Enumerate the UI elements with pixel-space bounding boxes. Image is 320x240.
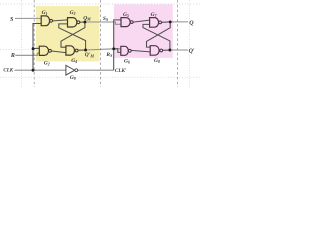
inverter G9 [66,65,75,75]
wire R input with jog into G2 lower input [15,53,39,55]
node CLKstar-RS crossing junction [112,47,115,50]
wire Q output [170,21,188,23]
wire CLK riser to G1 lower input [33,24,41,71]
svg-text:RS: RS [105,52,113,58]
wire G8 output to Qbar junction [163,49,170,51]
svg-text:Q′M: Q′M [85,52,95,58]
wire G7 output to Q junction [162,21,171,23]
node CLK junction [32,69,35,72]
svg-text:SS: SS [103,16,109,22]
nand gate G3 [68,18,77,27]
wire QMbar / RS to G6 upper input [86,49,121,50]
wire G4 output to QMbar junction [78,49,86,51]
node Q junction [169,20,172,23]
nand gate G8 [150,46,159,56]
wire master cross-coupling QMbar to G3 lower input [59,24,86,50]
nand gate G2 [39,46,48,55]
svg-text:G8: G8 [154,58,160,64]
nand gate G5 [121,18,130,27]
svg-text:Q′: Q′ [189,48,195,54]
wire G5 output to G7 upper input [133,20,149,22]
wire CLKstar riser to G5 upper input [114,20,121,70]
node QM junction [83,21,86,24]
nand gate G7 [150,18,159,28]
nand gate G4 [66,46,75,55]
svg-text:G9: G9 [70,75,76,81]
slave latch shaded block [114,4,173,58]
wire CLKstar branch to G6 lower input [114,49,121,53]
svg-text:G6: G6 [124,59,130,65]
svg-text:Q: Q [189,21,194,27]
svg-text:CLK′: CLK′ [115,68,127,74]
wire CLKstar from inverter to slave riser [78,69,114,71]
wire G1 output to G3 upper input [53,20,68,21]
wire G3 output to QM junction [80,21,85,23]
wire CLK rail [15,69,66,71]
svg-text:G2: G2 [44,61,50,67]
node CLK-R crossing junction [32,47,35,50]
wire S input [15,17,41,19]
svg-text:R: R [10,53,15,59]
node QMbar junction [84,49,87,52]
wire Qbar output [170,49,188,51]
wire G6 output to G8 lower input [131,50,150,52]
wire QM / SS to slave with jog into G5 lower input [85,22,121,24]
wire master cross-coupling QM to G4 upper input [61,22,85,47]
wire slave cross-coupling Qbar to G7 lower input [143,24,170,50]
node Qbar junction [168,49,171,52]
nand gate G6 [121,46,129,55]
wire slave cross-coupling Q to G8 upper input [147,22,171,47]
svg-text:CLK: CLK [3,69,13,74]
wire G2 output to G4 lower input [51,51,66,53]
master latch shaded block [36,6,100,61]
wire CLK branch to G2 upper input [33,47,39,49]
svg-text:S: S [10,17,14,23]
nand gate G1 [41,16,49,26]
svg-text:QM: QM [83,16,91,22]
